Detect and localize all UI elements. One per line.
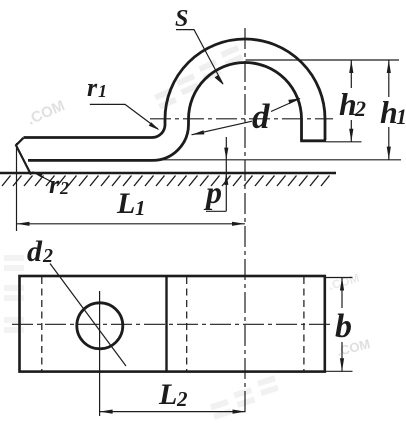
ground surface line bbox=[0, 172, 336, 175]
extension line b top bbox=[326, 277, 353, 279]
svg-text:1: 1 bbox=[396, 104, 406, 129]
hidden edge dashed inner-right bbox=[303, 277, 305, 371]
dimension L1 line bbox=[17, 223, 246, 225]
clamp inner contour (side view) bbox=[28, 63, 302, 161]
dimension L2 line bbox=[100, 411, 246, 413]
svg-text:2: 2 bbox=[354, 96, 366, 121]
dimension L2 arrows bbox=[100, 410, 246, 414]
hook vertical centerline bbox=[244, 28, 246, 412]
watermark left vertical chars bbox=[4, 258, 24, 330]
dimension h1 line bbox=[388, 60, 390, 160]
plate outline (plan view) bbox=[20, 276, 325, 372]
svg-text:d: d bbox=[27, 235, 43, 268]
leader d arrows bbox=[192, 98, 301, 135]
svg-text:r: r bbox=[87, 73, 98, 102]
extension line strip bottom (h1, p) bbox=[160, 159, 401, 161]
svg-text:r: r bbox=[49, 170, 60, 199]
extension line free end bottom (h2) bbox=[326, 141, 362, 143]
dimension p line bbox=[206, 137, 226, 211]
dimension h2 line bbox=[350, 60, 352, 142]
svg-text:d: d bbox=[252, 97, 270, 136]
svg-text:1: 1 bbox=[135, 196, 146, 220]
pipe horizontal centerline bbox=[150, 118, 333, 120]
svg-text:1: 1 bbox=[98, 81, 107, 101]
dimension p arrows bbox=[224, 148, 228, 185]
ground surface hatching bbox=[2, 176, 330, 187]
dimension h2 arrows bbox=[349, 60, 353, 142]
dimension h1 arrows bbox=[387, 60, 391, 160]
svg-text:2: 2 bbox=[42, 245, 53, 267]
svg-text:2: 2 bbox=[176, 387, 188, 411]
plate horizontal centerline bbox=[12, 323, 333, 325]
svg-text:S: S bbox=[175, 6, 188, 32]
dimension L1 extension left bbox=[16, 143, 18, 231]
dimension b arrows bbox=[340, 278, 344, 372]
watermark bottom center chars bbox=[208, 378, 280, 417]
clamp outer contour (side view) bbox=[24, 39, 326, 140]
hidden edge dashed left bbox=[41, 277, 43, 371]
extension line b bottom bbox=[326, 370, 353, 372]
svg-text:L: L bbox=[158, 378, 177, 411]
clamp free end cap bbox=[300, 139, 326, 142]
leader r2 bbox=[33, 172, 52, 182]
leader S bbox=[176, 30, 223, 84]
hole d2 bbox=[77, 303, 123, 349]
leader r1 bbox=[90, 104, 158, 129]
leader d left segment bbox=[192, 121, 253, 135]
hole vertical centerline bbox=[99, 291, 101, 416]
svg-text:2: 2 bbox=[59, 178, 69, 198]
leader d right segment bbox=[271, 99, 300, 112]
leader d2 bbox=[50, 264, 126, 367]
hidden edge dashed inner-left bbox=[186, 277, 188, 371]
dimension b line bbox=[341, 278, 343, 372]
plate bend edge solid bbox=[165, 276, 167, 372]
extension line top of loop (h1 h2) bbox=[246, 59, 400, 61]
svg-text:L: L bbox=[116, 187, 135, 220]
svg-text:b: b bbox=[335, 308, 352, 345]
watermark diagonal glyph blobs upper middle bbox=[150, 48, 247, 107]
svg-text:p: p bbox=[203, 174, 222, 210]
clamp toe bend bbox=[16, 138, 31, 175]
dimension L1 arrows bbox=[17, 222, 246, 226]
